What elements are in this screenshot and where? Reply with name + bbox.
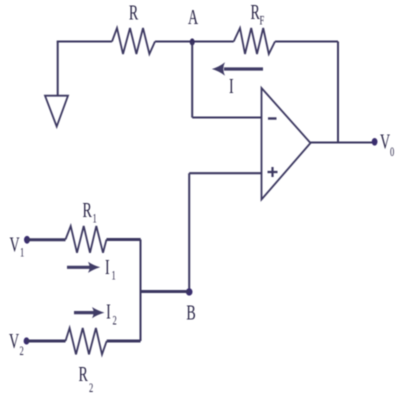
label I2 [106, 300, 111, 324]
svg-text:I: I [106, 300, 111, 324]
wire top left horizontal [57, 41, 112, 43]
svg-text:R: R [83, 198, 92, 222]
label V2 [9, 329, 19, 353]
wire noninverting input [189, 172, 261, 174]
label V0 [380, 130, 390, 154]
node B [186, 288, 193, 295]
wire ground lead vertical [57, 42, 59, 96]
label I [229, 74, 234, 98]
node V1 terminal dot [24, 236, 30, 244]
node V2 terminal dot [24, 337, 30, 344]
svg-text:2: 2 [113, 314, 117, 328]
wire inverting input [192, 117, 261, 119]
svg-text:1: 1 [93, 212, 97, 226]
svg-text:2: 2 [89, 381, 93, 395]
current arrow I1 [67, 266, 90, 269]
wire node B horizontal [141, 290, 190, 293]
wire node A down [191, 42, 193, 118]
wire RF to feedback corner [275, 41, 338, 43]
wire V2 lead [27, 340, 66, 343]
resistor R1 [66, 226, 107, 253]
label A [188, 5, 198, 29]
svg-text:V: V [10, 233, 20, 257]
node A [190, 38, 195, 45]
svg-text:R: R [251, 0, 260, 24]
label R [129, 1, 138, 25]
svg-text:0: 0 [390, 145, 394, 159]
node V0 terminal dot [372, 138, 378, 146]
wire R2 to corner [107, 340, 141, 343]
label R2 [79, 362, 88, 386]
minus marking [268, 117, 277, 119]
svg-text:B: B [186, 301, 195, 325]
resistor R [112, 28, 155, 54]
svg-text:R: R [79, 362, 88, 386]
wire output [311, 142, 373, 144]
wire feedback vertical [337, 42, 339, 143]
wire R to node A [155, 41, 234, 43]
svg-text:I: I [105, 255, 110, 279]
op-amp U1 [262, 88, 311, 200]
svg-text:V: V [9, 329, 19, 353]
label I1 [105, 255, 110, 279]
svg-text:I: I [229, 74, 234, 98]
plus marking [268, 167, 278, 177]
wire vertical R1/R2 junction column [140, 240, 142, 342]
label B [186, 301, 195, 325]
current arrow I [224, 67, 263, 70]
ground [45, 96, 68, 127]
label V1 [10, 233, 20, 257]
svg-text:R: R [129, 1, 138, 25]
svg-text:2: 2 [20, 344, 24, 358]
svg-text:1: 1 [112, 269, 116, 283]
svg-text:F: F [260, 14, 265, 28]
wire V1 lead [27, 238, 66, 241]
svg-text:1: 1 [20, 246, 24, 260]
label R1 [83, 198, 92, 222]
resistor RF [234, 28, 275, 54]
label RF [251, 0, 260, 24]
wire R1 to corner [107, 238, 141, 241]
current arrow I2 [74, 311, 96, 314]
resistor R2 [66, 328, 107, 354]
svg-text:A: A [188, 5, 198, 29]
svg-text:V: V [380, 130, 390, 154]
wire node B up [188, 173, 190, 291]
